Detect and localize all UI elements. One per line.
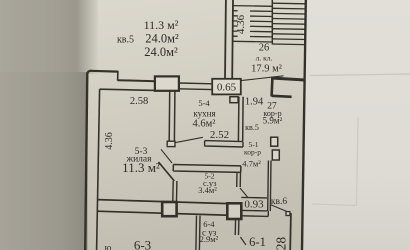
stair center divider: [271, 0, 273, 45]
svg-text:6-3: 6-3: [134, 238, 151, 250]
top-left rounded corner: [87, 71, 91, 74]
door jamb box below 0.65: [230, 97, 238, 103]
door leaf room 5-3 upper: [161, 149, 172, 163]
svg-text:кв.5: кв.5: [245, 123, 259, 132]
kv6 door leader: [270, 205, 287, 212]
kitchen bottom wall (hollow) under 2.52: [205, 141, 243, 147]
column 2: [227, 203, 241, 219]
top wall jog: [117, 71, 119, 81]
dim 4.36 stairwell knockout: [238, 10, 250, 40]
bottom double wall lower line: [97, 211, 241, 215]
svg-text:17.9 м²: 17.9 м²: [251, 64, 282, 75]
stair treads left flight: [233, 6, 272, 42]
corridor step wall horizontal: [272, 96, 292, 97]
kitchen door leaf: [175, 137, 203, 142]
svg-text:кухня: кухня: [193, 108, 215, 118]
svg-text:0.65: 0.65: [217, 81, 237, 93]
kv6 door jamb: [286, 212, 290, 216]
vent shaft box: [155, 76, 179, 90]
0.93 niche walls: [241, 196, 267, 199]
svg-text:26: 26: [259, 43, 270, 54]
svg-text:4.36: 4.36: [104, 132, 115, 150]
svg-text:2.52: 2.52: [210, 129, 229, 141]
svg-text:11.3 м²: 11.3 м²: [144, 18, 179, 32]
svg-text:4.7м²: 4.7м²: [242, 158, 261, 168]
svg-text:5-4: 5-4: [198, 98, 210, 108]
5-2 door leaf: [240, 188, 248, 197]
top outer wall segment B: [118, 80, 156, 81]
kitchen door left jamb: [167, 141, 175, 146]
kitchen right wall: [237, 97, 240, 141]
bottom double wall upper line: [97, 200, 241, 204]
corridor step wall vertical: [270, 78, 273, 96]
top inner wall line: [100, 89, 156, 90]
svg-text:2.58: 2.58: [130, 96, 148, 107]
building right wall: [302, 0, 306, 250]
wall 5-3 / 5-2 vertical: [172, 181, 174, 201]
faint show-through lines right side: [310, 74, 410, 76]
column 1: [162, 202, 176, 216]
wall 6-1 / corridor 28: [289, 213, 292, 250]
chamfer / door leaf 5-3 lower: [159, 162, 175, 181]
svg-text:2.9м²: 2.9м²: [200, 234, 219, 244]
stairwell bottom wall: [271, 78, 305, 80]
17.9 underline leader: [241, 76, 284, 81]
wall 6-3 / 6-4: [195, 216, 198, 250]
svg-text:кв.6: кв.6: [271, 197, 287, 207]
svg-text:1.94: 1.94: [245, 97, 264, 108]
svg-text:3.4м²: 3.4м²: [198, 185, 217, 195]
entry door jamb kv5 upper: [271, 137, 278, 146]
entry door jamb kv5 lower: [272, 150, 279, 160]
left inner wall: [97, 89, 100, 250]
svg-text:ю: ю: [105, 243, 112, 250]
svg-text:28: 28: [274, 237, 289, 250]
right blank paper: [303, 0, 410, 250]
stair treads right flight: [272, 3, 305, 44]
page edge left strip: [0, 72, 88, 250]
top outer wall segment A: [90, 70, 118, 73]
svg-text:кор-р: кор-р: [244, 147, 261, 156]
5-2 right wall: [236, 173, 238, 188]
svg-text:кв.5: кв.5: [117, 34, 134, 45]
page edge left strip soft top: [0, 0, 98, 74]
svg-text:4.36: 4.36: [235, 14, 247, 34]
corridor 27 left wall lower: [267, 161, 270, 212]
door leaf 6-1: [240, 237, 246, 245]
svg-text:5.9м²: 5.9м²: [263, 115, 283, 125]
left outer wall: [85, 73, 87, 250]
wall vent box to 0.65 box: [179, 82, 212, 85]
svg-text:11.3 м²: 11.3 м²: [122, 160, 160, 175]
5-2 top wall (hollow): [173, 165, 241, 173]
svg-text:0.93: 0.93: [244, 198, 264, 210]
svg-text:24.0м²: 24.0м²: [144, 45, 178, 59]
stairwell left wall: [224, 0, 227, 79]
0.65 dimension box: [212, 79, 241, 95]
kitchen left wall: [168, 91, 171, 141]
wall 6-4 / 6-1: [234, 219, 236, 235]
svg-text:24.0м²: 24.0м²: [145, 32, 179, 46]
svg-text:л. кл.: л. кл.: [256, 54, 273, 63]
